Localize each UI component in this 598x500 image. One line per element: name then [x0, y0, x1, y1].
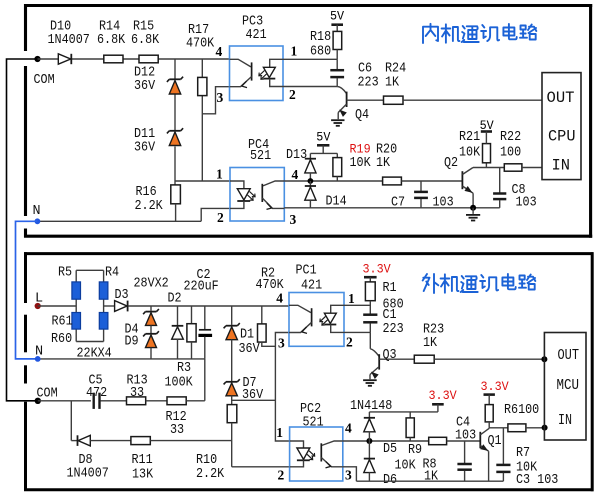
PC4 phototransistor: [263, 181, 284, 186]
node MCU OUT junction: [541, 356, 547, 362]
resistor R7: [508, 424, 526, 432]
wire PC3 pin1 to R18/C6 node: [283, 58, 337, 60]
svg-text:N: N: [35, 345, 43, 360]
svg-text:C6: C6: [358, 62, 372, 77]
svg-text:3: 3: [290, 212, 297, 227]
wire R24 to CPU OUT: [403, 99, 542, 101]
wire PC1 pin3 column down to PC2 pin1: [275, 333, 289, 442]
diode D10: [58, 54, 70, 64]
svg-text:2: 2: [278, 467, 285, 482]
svg-text:R10: R10: [196, 453, 217, 468]
resistor R3: [191, 306, 193, 324]
svg-text:2.2K: 2.2K: [135, 199, 164, 214]
svg-text:Q1: Q1: [488, 434, 502, 449]
svg-text:103: 103: [516, 196, 537, 211]
capacitor C8: [499, 168, 501, 193]
resistor R15: [139, 55, 158, 63]
svg-text:1: 1: [276, 425, 283, 440]
PC2 phototransistor: [322, 441, 343, 445]
svg-text:R6100: R6100: [504, 403, 539, 418]
svg-text:103: 103: [455, 429, 476, 444]
svg-text:R9: R9: [408, 443, 422, 458]
resistor R8: [429, 437, 447, 444]
wire R17 node jog to PC3 pin3: [202, 87, 229, 114]
svg-text:4: 4: [345, 421, 352, 436]
zener D7: [226, 381, 237, 383]
capacitor C1: [363, 313, 377, 316]
resistor R22: [504, 164, 522, 171]
PC2 LED light arrows: [309, 451, 314, 456]
svg-text:1K: 1K: [423, 336, 438, 351]
wire PC4 pin1 row: [175, 180, 230, 182]
resistor R19 (red label): [333, 158, 342, 177]
node N (indoor): [35, 218, 41, 224]
svg-text:R3: R3: [177, 361, 191, 376]
svg-text:R61: R61: [52, 314, 73, 329]
diode D6: [368, 441, 370, 459]
svg-text:1K: 1K: [376, 156, 391, 171]
svg-text:1K: 1K: [385, 76, 400, 91]
svg-text:R1: R1: [383, 281, 397, 296]
optocoupler U-PC2 box: [290, 427, 343, 481]
svg-text:3.3V: 3.3V: [429, 388, 457, 403]
resistor R12: [167, 397, 186, 405]
wire 3.3V to D5/R9 tops: [369, 411, 438, 413]
wire COM lead down left side to outdoor section: [7, 59, 38, 401]
wire PC3 pin2 to Q4 base: [283, 86, 337, 88]
svg-text:3: 3: [345, 467, 352, 482]
PC3 LED light arrows: [259, 71, 264, 76]
svg-text:IN: IN: [552, 156, 571, 174]
capacitor C7: [420, 181, 422, 191]
svg-text:28VX2: 28VX2: [134, 277, 169, 292]
resistor R18: [333, 31, 342, 49]
wire PC4 pin3 bottom row: [284, 207, 499, 209]
svg-text:D2: D2: [168, 292, 182, 307]
svg-text:1: 1: [348, 291, 355, 306]
wire jog to PC4 pin2: [201, 208, 230, 221]
CPU box: [542, 73, 581, 180]
svg-text:R60: R60: [51, 332, 72, 347]
node MCU IN junction: [542, 425, 548, 431]
svg-text:C3 103: C3 103: [516, 473, 558, 488]
svg-text:1K: 1K: [424, 469, 439, 484]
wire bottom rail (outdoor): [356, 480, 503, 482]
svg-text:COM: COM: [37, 386, 58, 401]
PC4 LED light arrows: [250, 192, 255, 197]
svg-text:D13: D13: [286, 148, 307, 163]
svg-text:L: L: [35, 292, 43, 307]
PC1 phototransistor: [289, 305, 311, 312]
wire N rail (outdoor): [38, 358, 205, 360]
svg-text:4: 4: [276, 291, 283, 306]
svg-text:PC1: PC1: [296, 264, 317, 279]
svg-text:1N4007: 1N4007: [67, 466, 109, 481]
transistor Q1: [479, 432, 481, 449]
svg-text:R4: R4: [105, 265, 119, 280]
svg-text:2.2K: 2.2K: [196, 467, 225, 482]
wire R23 to MCU OUT: [434, 358, 544, 360]
title indoor unit communication circuit: [423, 24, 536, 43]
resistor R60 (blue): [99, 313, 108, 330]
svg-text:R5: R5: [58, 265, 72, 280]
wire R8 to Q1 base: [447, 440, 480, 442]
svg-text:C7: C7: [391, 196, 405, 211]
svg-text:D5: D5: [383, 442, 397, 457]
svg-text:R11: R11: [132, 453, 153, 468]
PC4 LED: [230, 181, 244, 189]
svg-text:421: 421: [301, 279, 322, 294]
svg-text:36V: 36V: [134, 79, 155, 94]
svg-text:6.8K: 6.8K: [97, 33, 126, 48]
wire R6 bottom / Q1 collector node to R7: [488, 422, 490, 428]
wire R12 to N-rail column: [186, 400, 205, 402]
svg-text:10K: 10K: [395, 459, 417, 474]
wire D8 to R11: [90, 440, 131, 442]
wire R16 bottom to N rail: [175, 204, 177, 222]
svg-text:Q4: Q4: [355, 108, 369, 123]
zener D4: [150, 306, 152, 311]
svg-text:220uF: 220uF: [184, 280, 219, 295]
svg-text:R22: R22: [500, 130, 521, 145]
svg-text:103: 103: [433, 196, 454, 211]
svg-text:13K: 13K: [132, 468, 154, 483]
transistor Q2: [461, 171, 463, 189]
capacitor C3: [502, 428, 504, 464]
transistor Q4: [337, 87, 346, 94]
svg-text:D9: D9: [125, 335, 139, 350]
svg-text:36V: 36V: [134, 141, 155, 156]
resistor R9: [406, 418, 414, 438]
node COM terminal (outdoor): [35, 398, 41, 404]
svg-text:2: 2: [217, 210, 224, 225]
svg-text:3.3V: 3.3V: [481, 379, 509, 394]
PC2 LED: [290, 441, 304, 448]
resistor R1: [365, 282, 375, 301]
svg-text:D1: D1: [240, 328, 254, 343]
wire R10 bottom to PC2 pin2: [231, 423, 233, 467]
svg-text:R18: R18: [310, 30, 331, 45]
svg-text:33: 33: [130, 386, 144, 401]
resistor R24: [384, 96, 404, 104]
svg-text:10K: 10K: [459, 146, 481, 161]
wire 5V to D13 and R19 tops: [310, 152, 337, 154]
wire Q2 collector row to IN: [473, 167, 504, 169]
svg-text:1N4148: 1N4148: [350, 399, 392, 414]
svg-text:OUT: OUT: [558, 348, 580, 364]
diode D2: [177, 306, 179, 326]
zener D12: [169, 78, 180, 80]
wire R22 to CPU IN: [522, 167, 542, 169]
svg-text:2: 2: [289, 87, 296, 102]
resistor R11: [131, 437, 150, 445]
wire R11 to R10 column: [150, 440, 231, 442]
capacitor C4: [464, 441, 466, 463]
node Q2 emitter / C8 rail junction: [470, 205, 476, 211]
svg-text:521: 521: [250, 149, 271, 164]
wire R20 to Q2 base: [401, 180, 461, 182]
resistor bridge R5/R4/R61/R60 wiring: [75, 282, 77, 299]
optocoupler U-PC3 box: [230, 46, 284, 101]
svg-text:OUT: OUT: [547, 89, 575, 107]
wire D7 node to PC2 pin1 column: [232, 399, 276, 401]
node COM (indoor): [34, 56, 40, 62]
wire N rail corner down to R12: [204, 359, 206, 401]
wire zener column D12/D11: [174, 59, 176, 79]
wire COM drop to D8: [70, 401, 72, 441]
svg-text:223: 223: [358, 76, 379, 91]
ground (Q3 emitter): [363, 379, 377, 381]
outdoor unit circuit outer frame: [24, 252, 594, 491]
wire R2 bottom jog: [262, 342, 276, 346]
svg-text:472: 472: [86, 386, 107, 401]
diode D14: [309, 181, 311, 186]
svg-text:3: 3: [217, 90, 224, 105]
svg-text:2: 2: [346, 334, 353, 349]
wire PC4 pin4 row to R20: [284, 180, 382, 182]
svg-text:5V: 5V: [316, 130, 330, 145]
diode D5: [364, 417, 375, 419]
svg-text:5V: 5V: [330, 9, 344, 24]
resistor R4 (blue): [99, 282, 108, 299]
zener D9: [150, 325, 152, 333]
capacitor C6: [336, 59, 338, 69]
wire R13 to R12: [146, 400, 167, 402]
svg-text:1: 1: [291, 44, 298, 59]
svg-text:1: 1: [216, 167, 223, 182]
resistor R2: [261, 306, 263, 324]
svg-text:D3: D3: [115, 288, 129, 303]
resistor R61 (blue): [72, 313, 81, 330]
svg-text:R19: R19: [350, 141, 371, 156]
svg-text:100: 100: [500, 146, 521, 161]
node D5/D6 junction: [366, 438, 372, 444]
indoor unit circuit outer frame: [24, 4, 592, 238]
wire R7 to MCU IN: [526, 427, 545, 429]
wire N rail (indoor): [37, 220, 201, 222]
svg-text:4: 4: [216, 44, 223, 59]
resistor R20: [383, 177, 402, 185]
svg-text:CPU: CPU: [548, 128, 576, 146]
wire N blue lead down to outdoor section: [16, 221, 38, 359]
wire D3 to PC1 pin4 rail: [128, 305, 289, 307]
svg-text:470K: 470K: [186, 37, 215, 52]
svg-text:100K: 100K: [165, 375, 194, 390]
wire main top rail: [38, 58, 59, 60]
wire PC1 pin2 to C1/Q3 base: [344, 331, 370, 333]
svg-text:33: 33: [170, 423, 184, 438]
node L terminal: [35, 303, 41, 309]
resistor R16: [171, 185, 181, 204]
MCU box: [544, 333, 586, 441]
wire R17 column: [201, 59, 203, 77]
svg-text:223: 223: [383, 322, 404, 337]
capacitor C2 (electrolytic): [204, 306, 206, 329]
svg-text:C1: C1: [383, 308, 397, 323]
svg-text:680: 680: [310, 45, 331, 60]
optocoupler U-PC1 box: [289, 293, 344, 347]
svg-text:521: 521: [303, 416, 324, 431]
svg-text:COM: COM: [34, 73, 55, 88]
diode D8: [77, 435, 79, 446]
wire COM row: [38, 400, 91, 402]
transistor Q3: [369, 332, 371, 348]
PC1 LED light arrows: [320, 316, 325, 321]
node D13/D14 junction: [308, 178, 314, 184]
PC3 phototransistor: [230, 59, 251, 67]
resistor R21: [485, 163, 487, 168]
resistor R17: [198, 77, 207, 95]
svg-text:N: N: [33, 204, 41, 219]
svg-text:4: 4: [292, 167, 299, 182]
svg-text:421: 421: [246, 28, 267, 43]
svg-text:3.3V: 3.3V: [363, 262, 391, 277]
wire L to resistor bridge: [38, 305, 76, 307]
svg-text:1N4007: 1N4007: [48, 33, 90, 48]
PC3 LED: [270, 59, 283, 67]
ground (Q2 emitter): [472, 208, 474, 214]
resistor R10: [227, 405, 237, 423]
svg-text:3: 3: [278, 336, 285, 351]
wire PC2 pin3 jog to bottom rail: [343, 467, 357, 481]
zener D11: [169, 130, 180, 132]
svg-text:R24: R24: [385, 62, 406, 77]
resistor R14: [104, 55, 123, 63]
resistor R6: [485, 405, 493, 422]
capacitor C5: [92, 393, 94, 409]
svg-text:R7: R7: [516, 446, 530, 461]
diode D13: [305, 158, 316, 160]
title outdoor unit communication circuit: [423, 274, 536, 293]
svg-text:Q2: Q2: [444, 156, 458, 171]
node N terminal (outdoor): [35, 356, 41, 362]
resistor R5 (blue): [72, 282, 81, 299]
svg-text:R21: R21: [459, 130, 480, 145]
zener D1: [231, 306, 233, 325]
svg-text:Q3: Q3: [383, 348, 397, 363]
svg-text:10K: 10K: [350, 156, 372, 171]
optocoupler U-PC4 box: [230, 168, 284, 222]
resistor R13: [127, 397, 146, 405]
ground (Q4 emitter): [331, 119, 344, 121]
wire PC2 pin4 row: [343, 440, 429, 442]
svg-text:6.8K: 6.8K: [131, 33, 160, 48]
svg-text:IN: IN: [558, 413, 572, 429]
resistor R23: [414, 355, 434, 363]
wire PC1 pin1 to R1/C1 node: [344, 304, 370, 306]
svg-text:MCU: MCU: [557, 378, 580, 394]
PC1 LED: [331, 305, 344, 313]
diode D3: [115, 301, 127, 312]
svg-text:R16: R16: [136, 185, 157, 200]
svg-text:36V: 36V: [239, 342, 260, 357]
